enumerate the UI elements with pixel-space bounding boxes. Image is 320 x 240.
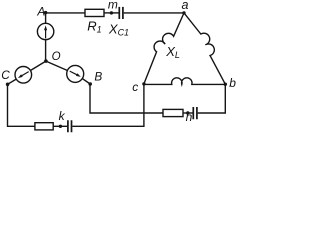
svg-text:k: k [59, 109, 66, 123]
wire R1 to capacitor [104, 12, 119, 14]
svg-text:a: a [182, 0, 189, 12]
capacitor XC1 [119, 7, 123, 19]
source EA (circle with up arrow) [37, 23, 53, 39]
node O [44, 59, 48, 63]
wire source EB to B [82, 79, 90, 84]
svg-text:c: c [132, 80, 138, 94]
node b [224, 83, 227, 86]
wire resistor to capacitor k [53, 125, 67, 127]
wire capacitor n to b [198, 84, 226, 113]
svg-text:C: C [1, 68, 10, 82]
wire source EC to C [8, 79, 17, 84]
wire capacitor to a [124, 12, 184, 14]
node c [142, 82, 145, 85]
node A [44, 11, 47, 14]
svg-text:XC1: XC1 [108, 21, 129, 37]
inductor in side a-b [184, 13, 225, 84]
wire A down to source EA [45, 13, 47, 23]
wire O to source EC [30, 61, 46, 70]
svg-text:A: A [36, 5, 45, 19]
wire O to source EB [46, 61, 68, 70]
wire A to R1 [46, 12, 85, 14]
node C [6, 83, 10, 87]
resistor in C line [35, 123, 53, 130]
wire capacitor k to c [72, 84, 144, 126]
svg-text:b: b [229, 76, 236, 90]
resistor in B line [163, 109, 183, 116]
node m [110, 11, 113, 14]
capacitor in B line [193, 107, 197, 119]
svg-text:B: B [94, 70, 102, 84]
source EB (circle with arrow toward B) [67, 65, 84, 82]
svg-text:O: O [52, 51, 61, 63]
svg-text:R1: R1 [87, 19, 101, 35]
wire B down and right to resistor [90, 84, 163, 113]
capacitor in C line [68, 120, 72, 132]
node a [182, 11, 185, 14]
node n [186, 111, 189, 114]
svg-text:XL: XL [165, 44, 180, 60]
svg-text:n: n [186, 110, 193, 124]
wire source EA to O [45, 40, 47, 61]
node B [88, 82, 92, 86]
svg-text:m: m [108, 0, 118, 11]
node k [59, 125, 62, 128]
wire C down and right to resistor [8, 84, 35, 126]
inductor XL in side c-a [144, 13, 184, 84]
resistor R1 [85, 9, 104, 16]
inductor in side c-b [144, 78, 225, 85]
wire resistor to capacitor n [183, 112, 193, 114]
source EC (circle with arrow toward C) [15, 67, 32, 84]
